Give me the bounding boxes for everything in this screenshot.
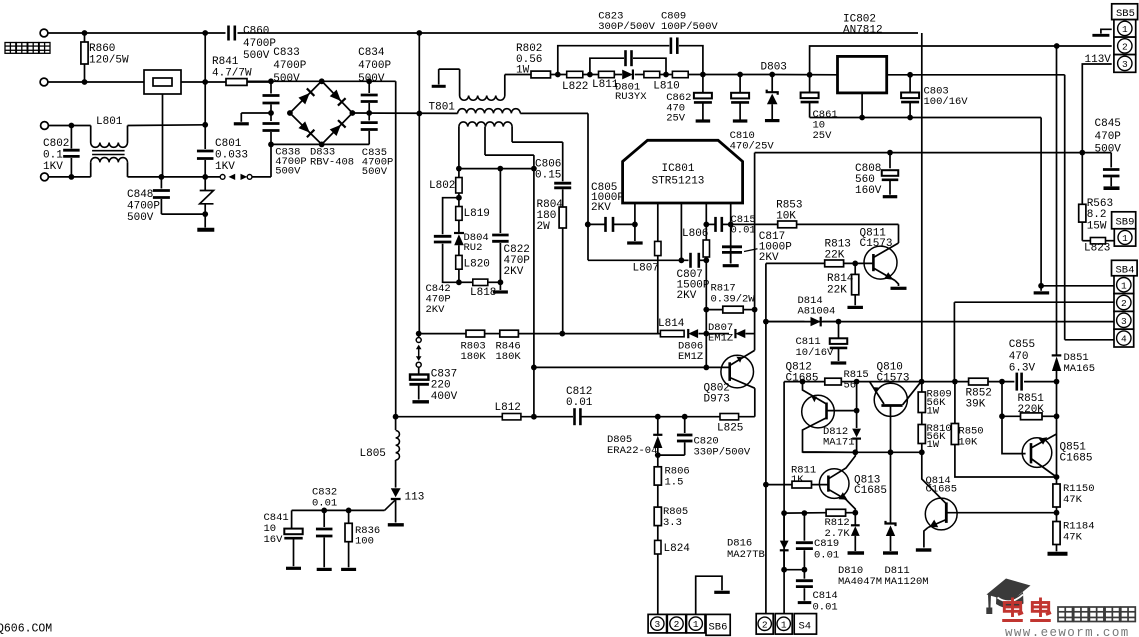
IC801 pin1 <box>634 203 636 224</box>
svg-text:C1573: C1573 <box>877 373 910 385</box>
svg-text:SB6: SB6 <box>709 622 728 634</box>
node R860 top <box>82 30 88 36</box>
capacitor C811 <box>838 322 840 338</box>
diode D816 MA27TB <box>783 513 785 540</box>
svg-text:1: 1 <box>1122 233 1128 244</box>
svg-text:500V: 500V <box>358 73 385 85</box>
wire SB5 pin2 feed <box>810 46 1112 75</box>
inductor L811 <box>599 71 615 77</box>
wire x1041 to SB4 pin1 <box>1040 118 1042 286</box>
capacitor C807 <box>689 253 692 268</box>
svg-text:L824: L824 <box>664 543 691 555</box>
resistor R815 <box>825 378 842 385</box>
svg-text:0.01: 0.01 <box>814 549 839 561</box>
wire x765.9 rail <box>765 263 767 614</box>
svg-text:2: 2 <box>1121 298 1127 309</box>
capacitor C838 <box>270 113 272 121</box>
resistor R814 <box>854 263 856 274</box>
capacitor C832 <box>323 510 325 527</box>
capacitor C860 <box>227 26 230 41</box>
wire D806 D807 y333.6 <box>419 333 466 335</box>
svg-text:56: 56 <box>844 380 857 392</box>
svg-text:1W: 1W <box>927 439 940 451</box>
svg-text:8.2: 8.2 <box>1087 209 1107 221</box>
capacitor C806 and resistor R804 <box>554 182 571 185</box>
IC802 output wire <box>887 74 1065 76</box>
capacitor C823 loop <box>590 58 624 74</box>
svg-text:4.7/7W: 4.7/7W <box>212 68 252 80</box>
svg-text:R814: R814 <box>827 273 854 285</box>
svg-text:2KV: 2KV <box>426 304 446 316</box>
wire y452.3 row <box>803 451 922 453</box>
inductor L818 <box>459 281 473 283</box>
svg-text:22K: 22K <box>825 250 845 262</box>
diode D812 MA171 <box>856 382 858 428</box>
thyristor 113 <box>391 488 401 497</box>
transistor Q810 C1573 <box>874 383 907 416</box>
ground main <box>197 228 214 232</box>
wire y512.7 row <box>784 512 826 514</box>
wire middle winding to C807 <box>587 113 589 260</box>
svg-text:22K: 22K <box>827 284 847 296</box>
svg-text:MA1120M: MA1120M <box>885 576 929 588</box>
label degaussing coil 消磁线圈 <box>5 43 16 54</box>
zener diode D811 MA1120M <box>890 452 892 523</box>
svg-text:RBV-408: RBV-408 <box>310 156 354 168</box>
svg-text:L806: L806 <box>682 228 708 240</box>
capacitor C801 <box>204 33 206 149</box>
inductor L825 <box>720 414 739 420</box>
connector SB6 <box>657 613 659 615</box>
svg-text:220K: 220K <box>1018 404 1045 416</box>
svg-text:2KV: 2KV <box>504 266 524 278</box>
capacitor C848 <box>160 177 162 189</box>
capacitor C855 <box>1015 373 1018 391</box>
svg-text:L814: L814 <box>658 318 685 330</box>
SB4 pin1 wire + ground <box>1041 285 1114 287</box>
svg-text:AN7812: AN7812 <box>843 25 883 37</box>
svg-text:C1685: C1685 <box>854 485 887 497</box>
svg-text:EM1Z: EM1Z <box>678 351 703 363</box>
svg-text:0.033: 0.033 <box>215 150 248 162</box>
svg-text:RU2: RU2 <box>464 242 483 254</box>
capacitor C834 <box>368 81 370 93</box>
diode D814 A81004 <box>766 321 805 323</box>
svg-text:L825: L825 <box>717 423 743 435</box>
svg-text:0.01: 0.01 <box>566 397 593 409</box>
wire to IC802 <box>772 74 837 76</box>
svg-text:C1685: C1685 <box>1060 453 1093 465</box>
svg-text:1.5: 1.5 <box>665 477 684 489</box>
svg-text:C860: C860 <box>243 26 269 38</box>
svg-text:500V: 500V <box>1095 144 1122 156</box>
svg-text:D973: D973 <box>704 394 730 406</box>
IC801 pin5 <box>730 203 732 263</box>
svg-text:6.3V: 6.3V <box>1009 363 1036 375</box>
svg-text:L812: L812 <box>495 402 521 414</box>
svg-text:500V: 500V <box>243 50 270 62</box>
T801 primary winding <box>458 109 521 114</box>
IC801 STR51213 <box>623 140 743 203</box>
svg-text:470: 470 <box>1009 351 1029 363</box>
svg-text:L818: L818 <box>470 287 496 299</box>
svg-text:L807: L807 <box>633 263 659 275</box>
wire y569.7 <box>784 569 804 571</box>
diode D801 RU3YX <box>614 74 622 76</box>
svg-text:IC801: IC801 <box>661 163 694 175</box>
svg-text:2KV: 2KV <box>677 290 697 302</box>
node R803 wire <box>416 331 422 337</box>
AC input terminal 2 <box>40 78 48 86</box>
svg-text:MA4047M: MA4047M <box>838 576 882 588</box>
varistor Z801 <box>204 177 206 191</box>
svg-text:0.1: 0.1 <box>43 150 63 162</box>
svg-text:25V: 25V <box>813 130 833 142</box>
svg-text:SB9: SB9 <box>1116 217 1135 229</box>
svg-text:10K: 10K <box>776 211 796 223</box>
resistor R817 <box>706 309 723 311</box>
svg-text:500V: 500V <box>273 73 300 85</box>
svg-text:0.01: 0.01 <box>813 601 838 613</box>
transistor Q851 C1685 <box>1002 416 1026 453</box>
svg-text:3: 3 <box>1122 59 1128 70</box>
T801 bottom winding <box>459 122 512 127</box>
capacitor C845 <box>1110 153 1112 168</box>
capacitor C819 <box>803 513 805 541</box>
capacitor C822 <box>499 169 501 233</box>
svg-text:2KV: 2KV <box>759 252 779 264</box>
resistor R812 <box>826 509 846 516</box>
svg-text:47K: 47K <box>1063 532 1083 544</box>
svg-text:39K: 39K <box>966 399 986 411</box>
wire +12V to SB4 pin4 <box>1064 75 1066 340</box>
svg-text:500V: 500V <box>275 165 301 177</box>
wire x418 rail <box>418 33 420 334</box>
resistor R811 <box>766 484 792 486</box>
SB6 pin1 ground hook <box>696 576 722 614</box>
capacitor C837 <box>418 367 420 374</box>
svg-text:L820: L820 <box>464 259 490 271</box>
wire y168.6 <box>459 168 534 170</box>
capacitor C812 <box>573 408 576 425</box>
wire spark gap to C838 bottom <box>252 176 271 178</box>
capacitor C841 <box>291 510 293 528</box>
svg-text:C819: C819 <box>814 538 839 550</box>
wire neutral y177 <box>161 176 220 178</box>
resistor R836 <box>348 510 350 523</box>
svg-text:1W: 1W <box>516 65 530 77</box>
svg-text:D816: D816 <box>727 538 752 550</box>
svg-text:MA171: MA171 <box>823 437 855 449</box>
resistor R1184 <box>1056 513 1058 522</box>
svg-text:L810: L810 <box>653 81 679 93</box>
svg-text:STR51213: STR51213 <box>652 176 705 188</box>
resistor R841 <box>226 79 247 86</box>
capacitor C833 <box>270 81 272 93</box>
node AC1 / ground branch <box>268 110 274 116</box>
svg-text:L819: L819 <box>464 208 490 220</box>
transistor Q811 C1573 <box>898 224 900 243</box>
svg-text:470/25V: 470/25V <box>730 140 775 152</box>
svg-text:C845: C845 <box>1095 118 1121 130</box>
capacitor C802 <box>48 125 90 127</box>
svg-text:T801: T801 <box>429 102 456 114</box>
svg-text:1KV: 1KV <box>43 161 63 173</box>
IC801 pin4 + L806 <box>705 203 707 240</box>
wire y416.7 row <box>396 416 503 418</box>
diode D805 ERA22-04 <box>655 414 661 420</box>
svg-text:C802: C802 <box>43 138 69 150</box>
wire Q802 emitter to L825 <box>754 388 756 417</box>
svg-text:2W: 2W <box>537 221 551 233</box>
capacitor C817 <box>722 245 742 248</box>
svg-text:0.01: 0.01 <box>312 498 337 510</box>
svg-text:0.15: 0.15 <box>535 170 561 182</box>
svg-text:1KV: 1KV <box>215 161 235 173</box>
resistor R860 <box>84 33 86 42</box>
diode D851 MA165 <box>1056 46 1058 355</box>
SB4 pin2 wire <box>954 301 1114 303</box>
svg-text:180K: 180K <box>496 351 522 363</box>
svg-text:4700P: 4700P <box>273 60 306 72</box>
svg-text:4: 4 <box>1121 334 1127 345</box>
svg-text:10/16V: 10/16V <box>796 347 835 359</box>
capacitor C842 <box>443 198 459 235</box>
wire Q814 base to divider <box>946 512 1056 514</box>
capacitor C805 <box>588 223 606 225</box>
capacitor C862 <box>700 72 706 78</box>
node x418 top <box>416 30 422 36</box>
diode D810 MA4047M <box>854 513 856 525</box>
resistor R850 <box>954 382 956 424</box>
svg-text:113: 113 <box>405 492 425 504</box>
wire 113V rail y152.6 <box>755 152 1112 154</box>
svg-text:EM1Z: EM1Z <box>708 332 733 344</box>
inductor L823 <box>1082 240 1090 242</box>
svg-text:470P: 470P <box>1095 131 1122 143</box>
terminal 3 <box>41 122 49 130</box>
inductor L810 <box>644 71 660 77</box>
svg-text:47K: 47K <box>1063 494 1083 506</box>
SB5 pin1 ground hook <box>1101 29 1112 33</box>
connector SB9 <box>1112 212 1136 229</box>
transistor Q802 D973 <box>721 355 754 388</box>
AC input terminal 1 <box>40 29 48 37</box>
svg-text:C833: C833 <box>273 47 299 59</box>
capacitor C861 <box>809 75 811 92</box>
svg-text:C1573: C1573 <box>860 238 893 250</box>
transistor Q814 C1685 <box>922 452 947 504</box>
connector SB5 <box>1112 4 1138 20</box>
inductor L802 <box>458 169 460 178</box>
svg-text:100P/500V: 100P/500V <box>661 21 718 33</box>
wire base Q802 y367.4 <box>534 366 730 368</box>
svg-text:C848: C848 <box>127 189 153 201</box>
IC802 ground wire <box>861 93 863 118</box>
wire top rail y33 <box>48 32 226 34</box>
svg-text:500V: 500V <box>127 212 154 224</box>
resistor R806 <box>657 455 659 467</box>
svg-text:3: 3 <box>654 619 660 630</box>
regulator IC802 AN7812 <box>838 56 887 93</box>
svg-text:S4: S4 <box>799 621 812 633</box>
svg-text:0.39/2W: 0.39/2W <box>711 294 756 306</box>
wire x754 113V to Q802 collector <box>754 153 756 351</box>
svg-text:C1685: C1685 <box>926 484 958 496</box>
fuse F801 <box>144 70 181 94</box>
diode D807 EM1Z <box>706 333 729 335</box>
svg-text:C814: C814 <box>813 590 838 602</box>
capacitor C814 <box>803 570 805 579</box>
svg-text:SB5: SB5 <box>1116 8 1135 20</box>
transistor Q813 C1685 <box>819 469 849 499</box>
zener diode D803 <box>769 72 775 78</box>
watermark text 电子下载站 <box>1058 607 1073 622</box>
svg-text:10K: 10K <box>958 436 978 448</box>
resistor R846 <box>500 330 519 337</box>
svg-text:2: 2 <box>1122 42 1128 53</box>
diode D804 RU2 <box>454 232 464 234</box>
capacitor C803 <box>909 75 911 92</box>
resistor R810 <box>918 425 925 444</box>
svg-text:2: 2 <box>762 619 768 630</box>
node C834 mid <box>366 110 372 116</box>
wire tap rail x533.9 <box>533 169 535 417</box>
svg-text:120/5W: 120/5W <box>89 55 129 67</box>
spark gap vertical <box>418 334 420 338</box>
svg-text:C834: C834 <box>358 47 385 59</box>
watermark text 虫虫 <box>1002 598 1023 621</box>
IC801 pin2 + L807 <box>657 203 659 241</box>
svg-text:L801: L801 <box>96 116 123 128</box>
svg-text:1: 1 <box>1121 280 1127 291</box>
diode D806 EM1Z <box>688 329 698 338</box>
svg-text:D803: D803 <box>761 62 787 74</box>
resistor R805 <box>657 485 659 507</box>
inductor L812 <box>502 414 521 420</box>
svg-text:C855: C855 <box>1009 339 1035 351</box>
svg-text:400V: 400V <box>431 391 458 403</box>
svg-text:RU3YX: RU3YX <box>615 91 647 103</box>
svg-text:L802: L802 <box>429 180 455 192</box>
SB4 pin3 wire <box>766 321 1114 323</box>
resistor R563 <box>1081 153 1083 205</box>
svg-text:300P/500V: 300P/500V <box>598 21 655 33</box>
svg-text:16V: 16V <box>264 534 284 546</box>
resistor R803 <box>466 330 485 337</box>
capacitor C810 <box>737 72 743 78</box>
watermark graduation cap <box>986 579 1030 615</box>
svg-text:R860: R860 <box>89 43 115 55</box>
svg-text:SB4: SB4 <box>1116 265 1135 277</box>
svg-text:160V: 160V <box>855 185 882 197</box>
wire fuse bottom to L801 <box>162 94 164 177</box>
svg-text:C837: C837 <box>431 369 457 381</box>
svg-text:0.01: 0.01 <box>731 224 756 236</box>
svg-text:L805: L805 <box>360 448 386 460</box>
bridge rectifier D833 RBV-408 <box>290 81 353 144</box>
svg-text:15W: 15W <box>1087 220 1107 232</box>
transistor Q812 C1685 <box>802 395 835 428</box>
svg-text:220: 220 <box>431 380 451 392</box>
svg-text:330P/500V: 330P/500V <box>694 447 751 459</box>
wire live y82 <box>48 81 144 83</box>
svg-text:4700P: 4700P <box>358 60 391 72</box>
resistor R813 <box>766 262 825 264</box>
svg-text:2KV: 2KV <box>591 202 611 214</box>
svg-text:MA165: MA165 <box>1064 363 1096 375</box>
wire y510.4 <box>292 509 385 511</box>
svg-text:1: 1 <box>781 619 787 630</box>
svg-text:R841: R841 <box>212 56 239 68</box>
svg-text:180K: 180K <box>461 351 487 363</box>
svg-text:C801: C801 <box>215 138 242 150</box>
wire x1057 divider rail <box>1056 382 1058 484</box>
svg-text:www.eeworm.com: www.eeworm.com <box>1005 626 1130 637</box>
IC801 pin3 <box>680 203 682 260</box>
capacitor C815 <box>706 223 715 225</box>
resistor R1150 <box>1053 484 1060 507</box>
svg-text:C1685: C1685 <box>786 373 819 385</box>
connector S4 <box>756 614 773 635</box>
inductor L820 <box>456 255 462 269</box>
rail x922 top to bottom <box>921 33 923 47</box>
connector SB4 <box>1112 260 1138 276</box>
resistor R809 <box>918 392 925 413</box>
svg-text:100/16V: 100/16V <box>924 96 969 108</box>
capacitor C835 <box>368 113 370 121</box>
ground at bridge <box>234 122 249 125</box>
wire bridge bottom <box>271 143 369 145</box>
svg-text:4700P: 4700P <box>243 38 276 50</box>
wire x784 rail to S4 pin1 <box>783 382 785 614</box>
svg-text:25V: 25V <box>666 113 686 125</box>
svg-text:2: 2 <box>674 619 680 630</box>
terminal 4 <box>41 173 49 181</box>
svg-text:L823: L823 <box>1084 243 1110 255</box>
svg-text:R563: R563 <box>1087 198 1113 210</box>
inductor L819 <box>456 207 462 221</box>
capacitor C809 loop <box>558 46 670 75</box>
svg-text:MA27TB: MA27TB <box>727 549 765 561</box>
svg-text:1: 1 <box>1122 24 1128 35</box>
resistor R851 <box>1001 382 1003 417</box>
resistor R802 <box>505 74 531 76</box>
svg-text:3: 3 <box>1121 316 1127 327</box>
capacitor C808 <box>889 153 891 169</box>
SB5 pin3 wire 113V <box>1082 64 1111 153</box>
svg-text:3.3: 3.3 <box>663 517 682 529</box>
T801 tap <box>484 127 486 156</box>
wire y381.6 row <box>784 381 825 383</box>
svg-text:4700P: 4700P <box>127 201 160 213</box>
inductor L814 <box>660 330 684 336</box>
svg-text:A81004: A81004 <box>798 306 836 318</box>
inductor L822 <box>567 71 583 77</box>
wire x395 down rail <box>395 81 397 416</box>
svg-text:1W: 1W <box>927 406 940 418</box>
svg-text:100: 100 <box>355 536 374 548</box>
svg-text:1: 1 <box>693 619 699 630</box>
node C801 top <box>202 30 208 36</box>
wire R841 to bridge top <box>247 80 396 82</box>
spark gap on neutral <box>220 175 225 180</box>
svg-text:L822: L822 <box>562 81 588 93</box>
svg-text:1K: 1K <box>791 474 804 486</box>
svg-text:500V: 500V <box>362 166 388 178</box>
resistor R853 wire <box>731 223 778 225</box>
svg-text:ERA22-04: ERA22-04 <box>607 445 657 457</box>
